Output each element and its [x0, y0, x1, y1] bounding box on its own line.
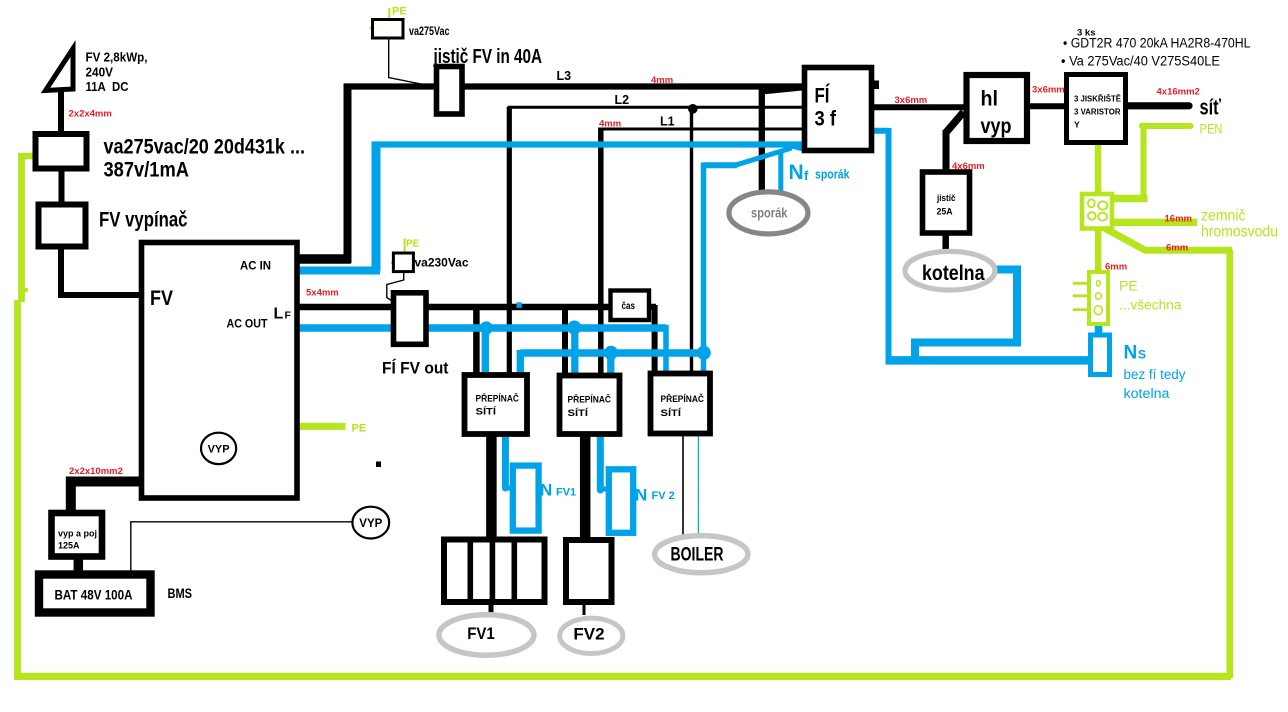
- breaker box jistic FV in 40A: [437, 67, 463, 115]
- svg-text:3 VARISTOR: 3 VARISTOR: [1074, 107, 1121, 117]
- link N FV2 (blue rectangle): [609, 469, 633, 533]
- source ellipse FV1: [439, 615, 534, 655]
- PV panel FV2 box: [566, 540, 612, 602]
- transfer switch box prepinac siti B: [560, 376, 620, 435]
- svg-text:3 f: 3 f: [815, 108, 837, 131]
- wire: AC IN vertical up to jistic line: [344, 84, 352, 264]
- battery box BAT 48V 100A: [39, 575, 151, 613]
- wire: hl vyp to jiskriste: [1025, 103, 1068, 109]
- wire: lime PE left vertical lower: [14, 300, 21, 677]
- svg-text:3 JISKŘIŠTĚ: 3 JISKŘIŠTĚ: [1074, 93, 1121, 104]
- wire: lime PE stub at FV box right: [297, 423, 346, 430]
- hole 3 of earth block: [1088, 212, 1096, 220]
- svg-text:FÍ: FÍ: [815, 85, 831, 108]
- mark: lime dot left of va230Vac small box: [391, 262, 394, 265]
- wire: L3 right segment to FI 3f: [460, 83, 806, 89]
- svg-text:va275Vac: va275Vac: [409, 26, 450, 38]
- earth block zemnic (lime, 4 holes): [1082, 194, 1112, 229]
- wire: prepinac A to FV1 array: [486, 431, 497, 541]
- wire: FV vypinac down and right into FV box: [61, 245, 143, 295]
- wire: PE tick above va230Vac small box: [404, 239, 406, 254]
- mark: small black dot under FV box: [376, 462, 381, 468]
- transfer switch box prepinac siti A: [465, 375, 528, 434]
- wire: blue stub H1 to prepinac A: [482, 328, 489, 375]
- hole 2 of PE terminal: [1096, 293, 1102, 300]
- wire: lime PE right vertical: [1226, 250, 1233, 678]
- svg-text:L2: L2: [615, 93, 630, 107]
- varistor box va275Vac (small top): [373, 20, 404, 39]
- svg-text:hromosvodu: hromosvodu: [1201, 224, 1278, 241]
- svg-text:• GDT2R 470 20kA HA2R8-470HL: • GDT2R 470 20kA HA2R8-470HL: [1063, 36, 1251, 51]
- wire: blue N main horizontal H0 to FI: [372, 141, 804, 147]
- node: blue junction dot on H2 at prepinac B: [604, 346, 618, 360]
- svg-text:va230Vac: va230Vac: [415, 258, 470, 270]
- node: junction dot on L2: [688, 104, 698, 114]
- svg-text:125A: 125A: [58, 541, 80, 551]
- svg-text:FV1: FV1: [556, 487, 576, 499]
- svg-text:SÍTÍ: SÍTÍ: [476, 407, 497, 417]
- svg-text:sporák: sporák: [815, 168, 850, 182]
- svg-text:S: S: [1138, 348, 1146, 362]
- svg-text:387v/1mA: 387v/1mA: [104, 159, 190, 182]
- svg-text:kotelna: kotelna: [1124, 386, 1171, 401]
- svg-text:L3: L3: [557, 69, 572, 83]
- svg-text:N: N: [1124, 343, 1138, 364]
- wire: blue vertical down right of FI: [886, 128, 892, 360]
- varistor box va275vac/20: [36, 134, 87, 169]
- wire: diagonal tap from L3 to sporak feeder: [762, 88, 803, 92]
- wire: lime top-right horizontal to PEN corner: [1144, 247, 1232, 254]
- svg-text:F: F: [285, 310, 292, 322]
- wire: lime vertical earth block to PE terminal: [1095, 227, 1102, 273]
- tick 1 of PE terminal: [1073, 282, 1089, 285]
- load ellipse BOILER: [655, 536, 748, 573]
- wire: LF AC OUT horizontal: [296, 304, 656, 311]
- divider 2 in FV1 array: [490, 540, 496, 602]
- indicator circle VYP in FV box: [201, 433, 236, 464]
- wire: blue stub PE terminal to Ns box: [1095, 322, 1103, 336]
- svg-text:2x2x4mm: 2x2x4mm: [69, 109, 112, 120]
- timer box cas: [611, 291, 650, 321]
- svg-text:4x16mm2: 4x16mm2: [1157, 87, 1200, 98]
- svg-text:3x6mm: 3x6mm: [1032, 85, 1065, 96]
- svg-text:sporák: sporák: [751, 205, 788, 221]
- mark: lime dot left of va275Vac small box: [370, 27, 373, 30]
- svg-text:FV vypínač: FV vypínač: [99, 209, 188, 232]
- switch box FV vypinac: [39, 205, 86, 247]
- link N FV1 (blue rectangle): [513, 466, 539, 531]
- svg-text:SÍTÍ: SÍTÍ: [568, 408, 589, 418]
- wire: stub FV2 to ellipse: [583, 601, 586, 615]
- wire: LF corner down to prepinac C: [652, 305, 658, 375]
- wire: lime PEN vertical drop: [1141, 123, 1147, 201]
- wire: blue from kotelna right: [915, 270, 1017, 362]
- inverter box FV: [142, 243, 298, 499]
- wire: blue N vertical sporak corner to H2: [701, 163, 707, 376]
- wire: AC IN horizontal from FV box: [297, 254, 351, 264]
- wire: blue horizontal to Ns box: [886, 356, 1092, 365]
- svg-text:PŘEPÍNAČ: PŘEPÍNAČ: [476, 393, 520, 404]
- mark: blue dash on FI left edge: [803, 119, 808, 124]
- wire: lime PE left vertical upper: [18, 153, 25, 302]
- wire: sporak feeder vertical: [759, 89, 765, 193]
- tick 2 of PE terminal: [1073, 294, 1089, 297]
- solar panel FV symbol (triangle): [46, 49, 74, 91]
- wire: jistic 25A to kotelna: [942, 232, 949, 253]
- wire: blue H1 end drop into prepinac C: [663, 325, 669, 374]
- wire: blue H2 horizontal: [520, 349, 704, 357]
- PV array FV1 box: [444, 540, 545, 603]
- terminal Ns box (blue): [1091, 335, 1110, 375]
- svg-text:PE: PE: [406, 239, 420, 250]
- wire: L2 vertical drop to prepinac A: [507, 107, 512, 377]
- wire: lime 6mm diagonal from earth block: [1104, 228, 1147, 252]
- svg-text:16mm: 16mm: [1165, 214, 1192, 225]
- svg-text:jistič FV in 40A: jistič FV in 40A: [433, 46, 542, 68]
- RCD box FI 3f: [805, 68, 872, 151]
- wire: L1 vertical drop to prepinac B: [598, 128, 604, 378]
- wire: blue H2 left corner stub into prepinac A: [517, 350, 524, 375]
- svg-text:VYP: VYP: [208, 444, 230, 456]
- svg-text:VYP: VYP: [359, 518, 382, 530]
- wire: black drop from LF to prepinac B: [562, 304, 568, 377]
- svg-text:PEN: PEN: [1200, 121, 1223, 137]
- svg-text:PE: PE: [352, 423, 367, 435]
- node: blue junction dot on H1 at prepinac B: [567, 321, 581, 335]
- wire: thin blue prepinac C to BOILER: [697, 433, 699, 536]
- mark: blue tick on LF wire: [517, 302, 522, 308]
- svg-text:3x6mm: 3x6mm: [895, 95, 928, 106]
- wire: blue hook to N FV1 link: [504, 486, 514, 491]
- wire: blue N corner vertical at x376: [372, 142, 381, 272]
- svg-text:N: N: [789, 161, 804, 184]
- wire: L2 horizontal: [508, 106, 805, 109]
- svg-text:zemnič: zemnič: [1201, 208, 1246, 225]
- wire: thin PE lead from va230Vac box to FI FV out: [387, 272, 404, 303]
- wire: varistor box to FV vypinac: [59, 167, 65, 206]
- wire: thin BMS wire from battery to VYP circle: [131, 522, 352, 573]
- svg-text:BAT 48V 100A: BAT 48V 100A: [55, 588, 133, 603]
- svg-text:2x2x10mm2: 2x2x10mm2: [69, 466, 123, 477]
- wire: lime PEN horizontal: [1142, 123, 1191, 129]
- transfer switch box prepinac siti C: [651, 374, 711, 434]
- indicator circle VYP near battery: [352, 507, 389, 539]
- wire: blue stub H1 to prepinac B: [571, 328, 578, 374]
- varistor box va230Vac (small): [393, 253, 413, 272]
- hole 1 of PE terminal: [1096, 281, 1100, 287]
- wire: vyp a poj to battery: [74, 555, 84, 576]
- svg-text:vyp: vyp: [981, 115, 1012, 138]
- wire: blue N stub below prepinac B: [597, 433, 604, 490]
- svg-text:FV: FV: [150, 287, 173, 310]
- wire: battery feed from FV box: [71, 482, 143, 516]
- wire: lime vertical jiskriste to earth block: [1095, 141, 1102, 195]
- wire: blue stub H2 to prepinac B: [607, 353, 614, 375]
- svg-text:11A DC: 11A DC: [86, 80, 129, 94]
- svg-text:4mm: 4mm: [599, 119, 621, 130]
- source ellipse FV2: [560, 618, 623, 653]
- wire: thin black prepinac C to BOILER: [682, 431, 684, 537]
- svg-text:FV 2: FV 2: [652, 490, 675, 502]
- svg-text:PE: PE: [392, 6, 407, 18]
- svg-text:BOILER: BOILER: [671, 545, 724, 566]
- breaker box jistic 25A: [923, 172, 970, 233]
- svg-text:6mm: 6mm: [1166, 243, 1188, 254]
- wire: diagonal from hl vyp down-left: [946, 112, 964, 133]
- svg-text:FV1: FV1: [467, 624, 495, 643]
- wire: vertical into jistic 25A: [943, 130, 950, 174]
- svg-text:...všechna: ...všechna: [1119, 297, 1182, 313]
- hole 4 of earth block: [1098, 213, 1107, 221]
- wire: blue diagonal arrow shaft: [737, 148, 792, 165]
- svg-text:hl: hl: [981, 88, 999, 111]
- mark: small lime dash on left PE wire: [23, 288, 28, 292]
- wire: panel stem: [58, 89, 64, 136]
- wire: lime 16mm horizontal zemnic hromosvodu: [1111, 219, 1197, 226]
- svg-text:SÍTÍ: SÍTÍ: [661, 408, 682, 418]
- svg-text:4x6mm: 4x6mm: [952, 161, 985, 172]
- svg-text:6mm: 6mm: [1105, 262, 1127, 273]
- hole 3 of PE terminal: [1094, 306, 1102, 315]
- wire: sit output from jiskriste: [1125, 102, 1189, 109]
- svg-text:FV 2,8kWp,: FV 2,8kWp,: [86, 51, 148, 65]
- wire: PE tick above va275Vac small box: [388, 8, 390, 20]
- wire: L1 horizontal: [599, 128, 804, 131]
- svg-text:5x4mm: 5x4mm: [306, 288, 339, 299]
- load ellipse sporak: [729, 192, 808, 234]
- svg-text:Y: Y: [1074, 120, 1080, 130]
- divider 1 in FV1 array: [467, 540, 473, 602]
- wire: blue N stub below prepinac A: [502, 431, 509, 488]
- svg-text:f: f: [804, 168, 809, 183]
- wire: blue AC IN N horizontal from FV: [297, 267, 380, 275]
- svg-text:síť: síť: [1200, 95, 1222, 120]
- hole 1 of earth block: [1088, 199, 1095, 207]
- svg-text:AC OUT: AC OUT: [227, 319, 268, 331]
- svg-text:N: N: [540, 481, 552, 500]
- svg-text:4mm: 4mm: [651, 75, 673, 86]
- svg-text:FV2: FV2: [573, 625, 604, 644]
- svg-text:N: N: [635, 486, 647, 505]
- svg-text:AC IN: AC IN: [240, 261, 271, 273]
- wire: blue hook to N FV2 link: [598, 487, 610, 492]
- wire: thin PE lead from va275Vac box to jistic: [389, 39, 431, 87]
- wire: lime PE bottom horizontal: [14, 673, 1231, 680]
- wire: vertical from L2 node to prepinac C: [690, 109, 693, 375]
- surge box 3 jiskriste 3 varistory: [1067, 75, 1126, 143]
- svg-text:bez fí tedy: bez fí tedy: [1124, 367, 1186, 382]
- svg-text:• Va 275Vac/40 V275S40LE: • Va 275Vac/40 V275S40LE: [1061, 54, 1220, 69]
- svg-text:vyp a poj: vyp a poj: [58, 529, 97, 539]
- switch-fuse box vyp a poj 125A: [52, 513, 103, 557]
- wire: prepinac B to FV2: [580, 431, 591, 541]
- mark: black nub on FI right edge: [873, 81, 880, 90]
- svg-text:240V: 240V: [86, 66, 114, 80]
- PE terminal strip (lime, 3 holes): [1089, 272, 1108, 324]
- svg-text:jistič: jistič: [936, 193, 955, 203]
- svg-text:BMS: BMS: [168, 586, 193, 601]
- wire: FI to hl vyp: [871, 104, 966, 110]
- svg-text:FÍ FV out: FÍ FV out: [382, 359, 449, 378]
- svg-text:L1: L1: [660, 115, 675, 129]
- RCD box FI FV out: [394, 293, 427, 345]
- svg-text:L: L: [274, 306, 284, 323]
- wire: blue N sporak corner horizontal: [704, 162, 738, 168]
- wire: stub FV1 array to ellipse: [489, 601, 494, 613]
- hole 2 of earth block: [1098, 201, 1107, 209]
- divider 3 in FV1 array: [511, 540, 517, 602]
- arrowhead: blue arrow pointing at FI corner: [788, 141, 804, 152]
- wire: L3 left segment: [344, 83, 438, 89]
- svg-text:čas: čas: [622, 300, 636, 312]
- wire: lime PE stub from left loop to varistor box: [22, 153, 37, 160]
- svg-text:kotelna: kotelna: [922, 262, 985, 285]
- svg-text:va275vac/20 20d431k ...: va275vac/20 20d431k ...: [104, 136, 306, 159]
- wire: lime horizontal into earth block right side: [1111, 195, 1148, 202]
- wire: blue Nf drop to sporak: [778, 150, 783, 193]
- wire: black drop from LF to prepinac A: [473, 304, 480, 377]
- load ellipse kotelna: [905, 251, 995, 290]
- svg-text:PŘEPÍNAČ: PŘEPÍNAČ: [568, 394, 612, 405]
- wire: blue from FI right edge: [871, 128, 889, 134]
- node: blue junction dot on H1 at prepinac A: [480, 321, 493, 334]
- svg-text:25A: 25A: [937, 207, 953, 217]
- svg-text:PE: PE: [1119, 278, 1138, 294]
- svg-text:PŘEPÍNAČ: PŘEPÍNAČ: [661, 393, 705, 404]
- main switch box hl vyp: [967, 75, 1028, 141]
- tick 3 of PE terminal: [1073, 308, 1089, 311]
- node: blue junction dot on H2 end at prepinac C: [697, 346, 711, 360]
- wire: blue H1 AC OUT N horizontal: [296, 324, 667, 332]
